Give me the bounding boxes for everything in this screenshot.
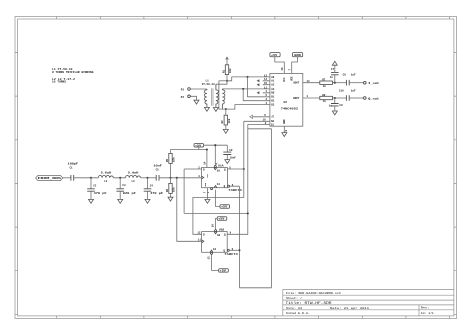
ground up at C7 <box>332 61 337 65</box>
node A0/B1 branch <box>246 76 248 78</box>
svg-text:74HC74: 74HC74 <box>224 253 238 256</box>
svg-text:8 TURNS TRIFILAR WINDING: 8 TURNS TRIFILAR WINDING <box>52 71 94 74</box>
svg-text:R6: R6 <box>166 188 169 192</box>
svg-text:BOUT: BOUT <box>293 97 300 100</box>
wire S1 stub <box>248 123 270 125</box>
node C3 tap <box>119 177 121 179</box>
note text L1/L2 winding info <box>52 68 94 83</box>
svg-text:C10: C10 <box>339 90 344 93</box>
wire winding A top to bias node <box>216 81 227 84</box>
wire R8 to C10 <box>332 97 346 99</box>
label arrow A1 <box>257 79 260 82</box>
power flag +5V at FF1 Cd <box>220 205 230 209</box>
svg-text:Cd: Cd <box>213 247 217 251</box>
resistor R1 bias top <box>222 65 232 81</box>
wire FF1 Q-bar loop <box>228 185 230 187</box>
node Q2-bar join <box>238 249 240 251</box>
svg-text:S1: S1 <box>271 123 275 126</box>
wire U2 GND pin <box>283 126 285 132</box>
wire C10 to Q out <box>349 97 363 99</box>
wire FF2 Cd to +5V <box>212 254 219 270</box>
svg-text:12: 12 <box>264 74 268 77</box>
svg-text:B0: B0 <box>271 92 275 95</box>
capacitor C5 10nF <box>153 164 162 180</box>
wire P3 to L1 primary <box>190 88 207 90</box>
svg-text:74HC4052: 74HC4052 <box>281 107 298 110</box>
svg-text:16: 16 <box>281 67 284 71</box>
svg-text:1n: 1n <box>330 76 334 79</box>
svg-text:11: 11 <box>198 239 202 242</box>
resistor R7 <box>320 79 333 88</box>
node C4 tap <box>146 177 148 179</box>
svg-text:1n: 1n <box>329 104 333 107</box>
svg-text:1k: 1k <box>323 99 327 103</box>
svg-text:C7: C7 <box>331 68 335 71</box>
wire R7 to C6 <box>332 82 346 84</box>
wire FF2 Q-bar stub <box>227 249 229 251</box>
resistor R5 bias upper <box>166 150 176 178</box>
ground at FF1 pin7 <box>206 188 208 200</box>
svg-text:C2: C2 <box>93 185 97 188</box>
ground below R2 <box>223 129 228 133</box>
svg-text:R1: R1 <box>222 69 225 73</box>
svg-text:+5V: +5V <box>221 206 228 209</box>
wire node to B3 <box>226 105 263 110</box>
svg-text:13: 13 <box>307 80 311 83</box>
secondary winding A <box>216 84 219 107</box>
node I filter <box>334 82 336 84</box>
+5V rail wire above divider <box>171 150 207 168</box>
transformer L1 FT-50-43 <box>202 80 225 110</box>
capacitor C4 470pF <box>144 178 164 200</box>
svg-text:P4: P4 <box>181 96 185 99</box>
wire P4 to ground <box>190 96 196 100</box>
svg-text:Size: A4: Size: A4 <box>286 306 302 310</box>
svg-text:15: 15 <box>264 82 268 85</box>
svg-text:GND: GND <box>283 119 286 124</box>
pin numbers left <box>264 74 268 105</box>
node FF1 VCC <box>206 148 208 150</box>
svg-text:C3: C3 <box>122 184 126 187</box>
svg-text:U1A: U1A <box>218 164 223 167</box>
ground at winding A <box>213 108 218 112</box>
capacitor C8 10nF decoupling <box>223 145 236 159</box>
svg-text:10nF: 10nF <box>230 156 237 159</box>
svg-text:U1B: U1B <box>219 229 224 232</box>
secondary winding B <box>222 89 225 109</box>
svg-text:AOUT: AOUT <box>293 82 300 85</box>
svg-text:1uF: 1uF <box>351 74 356 77</box>
capacitor C1 100pF <box>68 162 79 180</box>
svg-text:5.6uH: 5.6uH <box>128 171 139 174</box>
svg-text:File: SDR-EA4NZ-NACHROD.sch: File: SDR-EA4NZ-NACHROD.sch <box>286 291 341 295</box>
wire FF1 Q to S0 riser <box>227 168 243 170</box>
wire bias node to A0 <box>227 77 263 81</box>
svg-text:820 pF: 820 pF <box>123 192 137 195</box>
svg-text:L3: L3 <box>132 180 136 183</box>
svg-text:A3: A3 <box>271 88 275 91</box>
ground at U2 <box>282 133 287 137</box>
svg-text:C6: C6 <box>343 73 347 76</box>
svg-text:VCC: VCC <box>283 77 286 82</box>
node bias bottom <box>225 108 227 110</box>
svg-text:470 pF: 470 pF <box>150 192 164 195</box>
capacitor C7 <box>330 65 339 83</box>
capacitor C10 series <box>339 89 356 101</box>
svg-text:R5: R5 <box>166 158 169 162</box>
node Sd tie <box>214 144 216 146</box>
wire center tap <box>218 81 220 109</box>
svg-text:+5V: +5V <box>220 270 227 273</box>
svg-text:C9: C9 <box>339 104 343 107</box>
svg-text:I_out: I_out <box>368 81 379 85</box>
svg-text:13: 13 <box>207 256 210 260</box>
flip-flop U1 74HC74 first half <box>198 161 242 193</box>
svg-text:100pF: 100pF <box>68 162 79 165</box>
node S1/D1 junction <box>247 212 249 214</box>
node bias divider tap <box>169 177 171 179</box>
svg-text:10k: 10k <box>227 118 231 123</box>
wire S1 riser to FF2 Q <box>227 124 248 234</box>
wire S0 stub <box>244 120 270 122</box>
global label E <box>253 116 270 118</box>
svg-text:10: 10 <box>212 224 215 228</box>
svg-text:C8: C8 <box>229 149 233 152</box>
svg-text:74HC74: 74HC74 <box>228 189 242 192</box>
node bias top <box>226 80 228 82</box>
power flag GND at U2 VEE <box>292 53 303 74</box>
connector I_out <box>364 81 380 85</box>
svg-text:FROM_DDS: FROM_DDS <box>38 177 62 180</box>
node C2 tap <box>90 177 92 179</box>
svg-text:B1: B1 <box>271 96 275 99</box>
svg-text:10k: 10k <box>172 187 176 192</box>
svg-text:+5V: +5V <box>195 144 202 147</box>
capacitor C6 series <box>343 73 356 85</box>
svg-text:Cd: Cd <box>217 182 221 186</box>
svg-text:12: 12 <box>197 232 201 235</box>
inductor L2 5.6uH <box>98 171 113 183</box>
power flag +5V at FF2 Cd <box>219 269 229 273</box>
ground below C4 <box>145 199 150 203</box>
svg-text:Q_out: Q_out <box>368 96 379 100</box>
svg-text:Sheet: /: Sheet: / <box>286 296 302 300</box>
svg-text:470 pF: 470 pF <box>94 192 108 195</box>
svg-text:/E: /E <box>271 115 275 119</box>
power flag +5V at FF2 Sd <box>216 217 227 230</box>
label arrow A2 <box>257 83 260 86</box>
svg-text:5.6uH: 5.6uH <box>101 171 112 174</box>
global label FROM_DDS <box>36 175 63 180</box>
power flag +5V at FF1 VCC <box>194 144 204 150</box>
wire S0 riser to FF2 D <box>193 121 244 234</box>
svg-text:14: 14 <box>203 161 206 165</box>
svg-text:VEE: VEE <box>291 76 294 81</box>
wire FF1 D feedback <box>184 169 248 213</box>
svg-text:C1: C1 <box>70 167 74 170</box>
svg-text:+5V: +5V <box>218 218 225 221</box>
svg-text:R2: R2 <box>221 120 224 124</box>
svg-text:Date: 21 apr 2011: Date: 21 apr 2011 <box>330 306 369 310</box>
wire AOUT pin 13 <box>303 82 320 84</box>
wire C6 to I out <box>349 82 363 84</box>
resistor R2 bias bottom <box>221 109 231 129</box>
flip-flop U1 74HC74 second half <box>197 224 238 260</box>
svg-text:KiCad E.D.A.: KiCad E.D.A. <box>286 311 310 315</box>
ground at C9 <box>332 111 337 115</box>
ground at P4 <box>194 100 199 104</box>
connector Q_out <box>364 96 380 100</box>
svg-text:11: 11 <box>264 86 268 89</box>
svg-text:Sd: Sd <box>217 168 221 172</box>
core <box>211 88 213 106</box>
capacitor C9 <box>329 98 343 111</box>
wire C1 to C2 node <box>74 177 91 179</box>
ground below C2 <box>89 199 94 203</box>
node Q filter <box>334 97 336 99</box>
ground below C3 <box>118 199 123 203</box>
primary winding <box>204 89 206 107</box>
svg-text:14: 14 <box>264 78 268 81</box>
ground below C8 <box>225 160 230 164</box>
node A3/B2 branch <box>242 88 244 90</box>
svg-text:Rev:: Rev: <box>421 307 430 310</box>
svg-text:1k: 1k <box>323 84 327 88</box>
capacitor C3 820pF <box>116 178 136 200</box>
wire branch to B1 <box>248 77 263 97</box>
pin stubs A0-B3 <box>263 77 270 105</box>
label arrow B0 <box>257 91 260 94</box>
svg-text:B2: B2 <box>271 100 275 103</box>
svg-text:C5: C5 <box>156 169 160 172</box>
svg-text:Title: RTW-HF-SDR: Title: RTW-HF-SDR <box>286 301 332 306</box>
svg-text:U2: U2 <box>284 101 288 104</box>
svg-text:A1: A1 <box>271 80 275 83</box>
inductor L3 5.6uH <box>126 171 141 183</box>
svg-text:Sd: Sd <box>217 233 221 237</box>
wire BOUT pin 3 <box>303 97 320 99</box>
resistor R8 <box>320 94 333 103</box>
svg-text:10k: 10k <box>228 68 232 73</box>
capacitor C2 470pF <box>87 178 107 200</box>
connector P3 <box>181 88 191 92</box>
wire bias node to center tap <box>219 80 227 82</box>
wire clock branch to FF clocks <box>177 178 202 242</box>
svg-text:R8: R8 <box>322 94 326 97</box>
wire +5V to Sd and C8 <box>204 145 228 165</box>
resistor R6 bias lower <box>166 178 176 197</box>
svg-text:C4: C4 <box>150 185 154 188</box>
svg-text:R7: R7 <box>322 79 326 82</box>
power flag +5V at U2 VCC <box>270 53 284 74</box>
svg-text:FT-50-43: FT-50-43 <box>202 83 215 86</box>
wire winding B bottom / center tap to node <box>219 107 226 109</box>
connector P4 <box>181 95 191 99</box>
wire to C4 node and C5 <box>141 177 157 179</box>
wire to C3 node <box>91 177 126 179</box>
wire FF1 Cd to +5V <box>216 190 220 207</box>
ground below R6 <box>168 197 173 201</box>
svg-text:+5V: +5V <box>271 54 278 57</box>
svg-text:B3: B3 <box>271 104 275 107</box>
svg-text:L2: L2 <box>104 180 108 183</box>
node clock branch <box>176 177 178 179</box>
svg-text:1uF: 1uF <box>351 89 356 92</box>
ground at L1 primary <box>204 107 209 111</box>
op IC U2 74HC4052 <box>270 73 303 126</box>
wire from label to C1 <box>63 177 71 179</box>
wire winding B top to A3 <box>222 88 262 90</box>
svg-text:10nF: 10nF <box>153 164 162 167</box>
title block <box>283 289 454 316</box>
svg-text:15 TURNS: 15 TURNS <box>52 81 66 84</box>
node Q1 <box>243 168 245 170</box>
svg-text:10k: 10k <box>172 157 176 162</box>
wire branch to B2 <box>243 89 263 101</box>
wire C5 to FF clock with bias tap nodes <box>159 177 202 179</box>
svg-text:A0: A0 <box>271 76 275 79</box>
svg-text:P3: P3 <box>181 89 185 92</box>
svg-text:Id: 1/1: Id: 1/1 <box>421 311 434 315</box>
svg-text:A2: A2 <box>271 84 275 87</box>
power +5V arrow above R1 <box>226 57 229 65</box>
